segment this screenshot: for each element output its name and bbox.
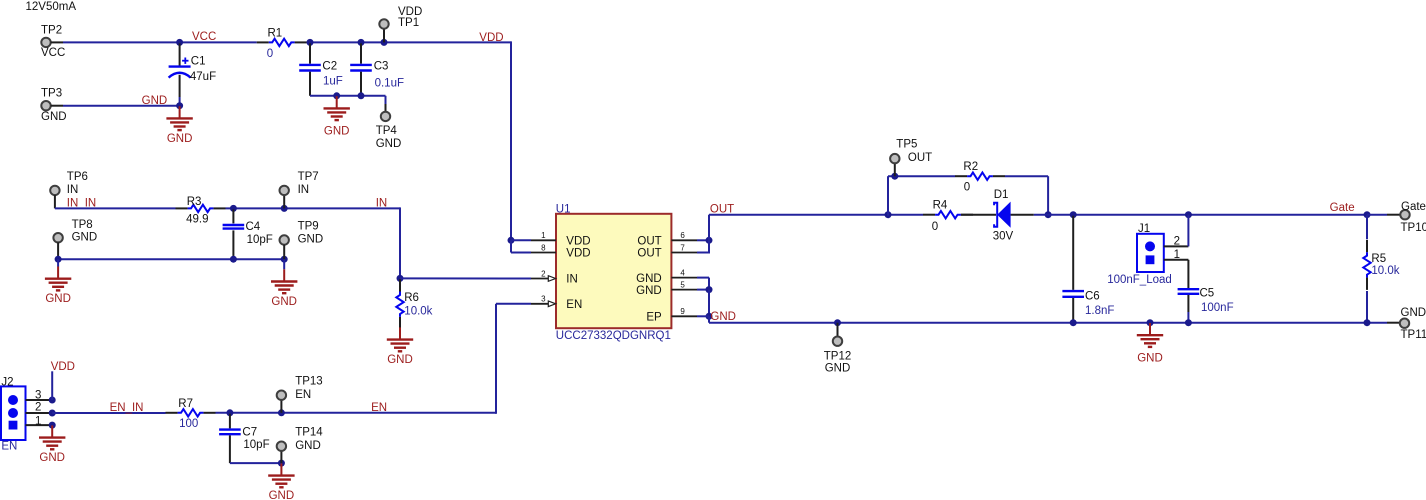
svg-text:1: 1 (35, 416, 41, 428)
svg-text:2: 2 (35, 402, 41, 414)
svg-text:IN: IN (67, 184, 79, 196)
svg-text:VDD: VDD (479, 32, 503, 44)
svg-text:30V: 30V (993, 231, 1014, 243)
svg-text:TP4: TP4 (376, 125, 398, 137)
svg-text:C4: C4 (246, 221, 261, 233)
svg-text:3: 3 (541, 295, 546, 304)
svg-text:TP5: TP5 (896, 139, 917, 151)
svg-text:VDD: VDD (51, 361, 75, 373)
svg-text:VCC: VCC (192, 31, 216, 43)
svg-text:100nF: 100nF (1201, 302, 1234, 314)
svg-text:GND: GND (636, 285, 662, 297)
svg-text:TP8: TP8 (72, 219, 93, 231)
svg-text:VCC: VCC (41, 47, 65, 59)
svg-text:GND: GND (1401, 307, 1426, 319)
svg-text:R4: R4 (933, 199, 948, 211)
svg-text:9: 9 (680, 307, 685, 316)
svg-text:IN: IN (376, 197, 388, 209)
svg-text:1uF: 1uF (323, 76, 343, 88)
svg-text:0.1uF: 0.1uF (375, 78, 404, 90)
svg-text:GND: GND (269, 490, 295, 500)
svg-text:GND: GND (1137, 353, 1163, 365)
svg-text:100nF_Load: 100nF_Load (1107, 274, 1172, 286)
svg-text:10pF: 10pF (247, 234, 273, 246)
svg-text:GND: GND (167, 133, 193, 145)
svg-text:EN_IN: EN_IN (110, 402, 144, 414)
svg-text:OUT: OUT (637, 236, 661, 248)
svg-text:100: 100 (179, 418, 198, 430)
svg-text:OUT: OUT (637, 248, 661, 260)
svg-text:OUT: OUT (710, 204, 734, 216)
svg-text:49.9: 49.9 (186, 214, 208, 226)
svg-text:10.0k: 10.0k (1371, 265, 1399, 277)
svg-text:TP2: TP2 (41, 24, 62, 36)
svg-text:VDD: VDD (566, 248, 590, 260)
svg-text:C6: C6 (1085, 290, 1100, 302)
svg-text:TP3: TP3 (41, 87, 62, 99)
svg-text:GND: GND (710, 311, 736, 323)
svg-text:1: 1 (1174, 249, 1180, 261)
svg-text:10pF: 10pF (243, 439, 269, 451)
svg-text:R5: R5 (1371, 253, 1386, 265)
svg-text:GND: GND (825, 363, 851, 375)
svg-text:R1: R1 (268, 28, 283, 40)
svg-text:0: 0 (932, 221, 938, 233)
svg-text:C5: C5 (1200, 287, 1215, 299)
svg-text:EP: EP (646, 312, 662, 324)
svg-text:C2: C2 (322, 60, 337, 72)
svg-text:C3: C3 (374, 60, 389, 72)
svg-text:OUT: OUT (908, 152, 932, 164)
svg-text:TP6: TP6 (67, 171, 88, 183)
svg-text:1: 1 (541, 231, 546, 240)
svg-text:1.8nF: 1.8nF (1085, 305, 1114, 317)
svg-text:2: 2 (1174, 236, 1180, 248)
svg-text:IN: IN (298, 184, 310, 196)
svg-text:R6: R6 (404, 292, 419, 304)
svg-text:TP9: TP9 (298, 221, 319, 233)
svg-text:EN: EN (1, 441, 17, 453)
svg-text:3: 3 (35, 390, 41, 402)
svg-text:TP1: TP1 (398, 17, 419, 29)
svg-text:C7: C7 (242, 427, 257, 439)
svg-text:8: 8 (541, 243, 546, 252)
svg-text:R7: R7 (178, 398, 193, 410)
svg-text:GND: GND (271, 296, 297, 308)
svg-text:Gate: Gate (1401, 201, 1426, 213)
svg-text:7: 7 (680, 243, 685, 252)
svg-text:5: 5 (680, 280, 685, 289)
svg-text:EN: EN (371, 402, 387, 414)
svg-text:GND: GND (376, 138, 402, 150)
svg-text:2: 2 (541, 269, 546, 278)
svg-text:D1: D1 (994, 189, 1009, 201)
svg-text:GND: GND (387, 354, 413, 366)
svg-text:GND: GND (39, 452, 65, 464)
svg-text:Gate: Gate (1330, 202, 1355, 214)
svg-text:TP7: TP7 (298, 171, 319, 183)
svg-text:J1: J1 (1138, 223, 1150, 235)
svg-text:TP12: TP12 (824, 350, 852, 362)
svg-text:C1: C1 (191, 56, 206, 68)
svg-text:0: 0 (964, 182, 970, 194)
svg-text:GND: GND (45, 293, 71, 305)
svg-text:47uF: 47uF (190, 71, 216, 83)
svg-text:VDD: VDD (566, 236, 590, 248)
svg-text:GND: GND (72, 232, 98, 244)
svg-text:4: 4 (680, 268, 685, 277)
svg-text:UCC27332QDGNRQ1: UCC27332QDGNRQ1 (556, 330, 671, 342)
svg-text:TP14: TP14 (295, 427, 323, 439)
svg-text:U1: U1 (556, 203, 571, 215)
svg-text:GND: GND (636, 273, 662, 285)
svg-text:R2: R2 (963, 161, 978, 173)
svg-text:IN: IN (566, 274, 578, 286)
svg-text:EN: EN (295, 389, 311, 401)
svg-text:GND: GND (142, 95, 168, 107)
svg-text:TP11: TP11 (1401, 329, 1426, 341)
svg-text:R3: R3 (187, 196, 202, 208)
svg-text:6: 6 (680, 231, 685, 240)
svg-text:TP13: TP13 (295, 375, 323, 387)
svg-text:GND: GND (41, 111, 67, 123)
svg-text:J2: J2 (1, 376, 13, 388)
svg-text:10.0k: 10.0k (404, 306, 432, 318)
svg-text:0: 0 (267, 48, 273, 60)
svg-text:TP10: TP10 (1401, 222, 1426, 234)
svg-text:GND: GND (324, 126, 350, 138)
svg-text:GND: GND (295, 440, 321, 452)
svg-text:EN: EN (566, 299, 582, 311)
svg-text:12V50mA: 12V50mA (26, 1, 77, 13)
svg-text:GND: GND (298, 234, 324, 246)
